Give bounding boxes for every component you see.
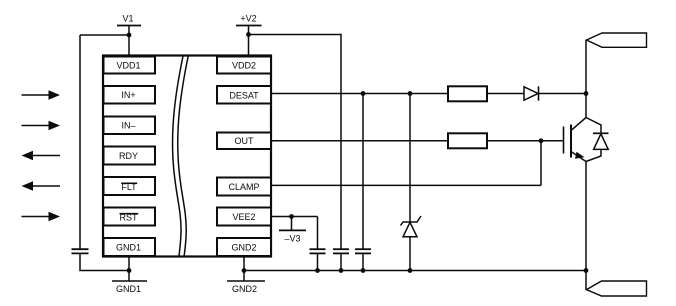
arrow IN+ (input direction)	[22, 90, 61, 99]
wire CLAMP line	[271, 184, 541, 186]
wire GND1 pin down	[128, 257, 130, 282]
svg-text:VEE2: VEE2	[232, 212, 255, 222]
wire +V2 node to bypass cap C2 rail	[249, 35, 342, 250]
pin box RST	[104, 208, 156, 226]
gate bar	[563, 127, 565, 154]
svg-text:DESAT: DESAT	[229, 91, 259, 101]
terminal flag (to load/phase)	[587, 281, 647, 296]
-V3 supply symbol	[279, 217, 306, 244]
wire VEE2 down to cap C3	[317, 217, 319, 250]
wire zener rail from DESAT line	[409, 94, 411, 222]
junction emitter-bus	[584, 268, 589, 273]
pin box RDY	[104, 147, 156, 165]
wire clamp node down	[540, 141, 542, 186]
ground symbol GND1	[112, 281, 147, 294]
wire V1 to VDD1	[128, 26, 130, 56]
pin box IN+	[104, 86, 156, 104]
wire cap C1 to GND1	[80, 253, 129, 270]
isolation barrier curves	[173, 56, 183, 256]
arrow RST (input direction)	[22, 212, 61, 221]
+V2 supply symbol	[236, 14, 262, 26]
wire cap C3 to bus	[317, 253, 319, 270]
capacitor C3 (VEE2 bypass)	[310, 249, 326, 253]
junction collector node	[584, 91, 589, 96]
svg-text:–V3: –V3	[284, 233, 300, 243]
svg-text:GND1: GND1	[116, 284, 141, 294]
collector lead	[571, 94, 586, 131]
pin box IN-	[104, 117, 156, 135]
pin box GND2	[217, 238, 271, 256]
freewheeling diode D2	[586, 118, 609, 162]
emitter arrowhead	[575, 152, 585, 159]
pin box OUT	[217, 133, 271, 150]
svg-text:V1: V1	[122, 14, 133, 24]
ground symbol GND2	[227, 281, 265, 294]
junction zener-bus	[408, 268, 413, 273]
wire V1 node to left bypass cap	[80, 34, 129, 36]
pin labels	[116, 61, 260, 253]
IC body U1 isolated gate driver	[103, 56, 271, 257]
wire emitter down to terminal	[585, 271, 587, 290]
zener diode Z1	[401, 216, 422, 237]
junction V1 node	[127, 33, 132, 38]
wire R2 to gate	[487, 140, 563, 142]
wire R1 to D1	[487, 93, 524, 95]
emitter lead	[571, 152, 586, 271]
junction DESAT zener tap	[408, 91, 413, 96]
svg-text:VDD2: VDD2	[232, 61, 256, 71]
arrow RDY (output direction)	[22, 151, 61, 160]
wire OUT line	[271, 140, 448, 142]
right pin boxes	[217, 57, 271, 257]
junction C3-bus	[315, 268, 320, 273]
junction C4-bus	[361, 268, 366, 273]
overline FLT	[121, 182, 137, 184]
wire DESAT line	[271, 93, 448, 95]
svg-text:RDY: RDY	[119, 151, 138, 161]
junction gate/clamp node	[539, 138, 544, 143]
junction VEE2 / -V3 tap	[289, 214, 294, 219]
svg-text:IN–: IN–	[121, 121, 135, 131]
svg-text:GND1: GND1	[116, 243, 141, 253]
arrow FLT (output direction)	[22, 181, 61, 190]
junction C2-bus	[339, 268, 344, 273]
resistor R1 (DESAT)	[448, 86, 487, 101]
pin box VDD1	[104, 57, 156, 74]
wire GND2 pin down	[243, 257, 245, 282]
junction GND1 node	[127, 268, 132, 273]
diode D1 (DESAT sense)	[524, 86, 539, 100]
wire cap C4 to bus	[362, 253, 364, 270]
arrow IN- (input direction)	[22, 121, 61, 130]
junction GND2 node	[242, 268, 247, 273]
left pin boxes	[104, 57, 156, 257]
svg-text:OUT: OUT	[235, 136, 255, 146]
pin box VDD2	[217, 57, 271, 74]
wire VEE2 line	[271, 216, 318, 218]
wire +V2 to VDD2	[248, 26, 250, 56]
wire cap C2 to GND2 bus	[340, 253, 342, 270]
resistor R2 (gate)	[448, 133, 487, 148]
V1 supply symbol	[117, 14, 141, 26]
wire zener to bus	[409, 237, 411, 271]
pin box FLT	[104, 177, 156, 195]
wire left rail down	[79, 35, 81, 249]
terminal flag (to bus voltage)	[587, 33, 647, 47]
wire DESAT blanking cap rail	[362, 94, 364, 250]
pin box CLAMP	[217, 178, 271, 196]
pin box DESAT	[217, 86, 271, 104]
wire D1 to collector node	[539, 93, 587, 95]
junction DESAT blanking cap tap	[361, 91, 366, 96]
svg-text:+V2: +V2	[240, 14, 256, 24]
transistor Q1 IGBT	[564, 94, 587, 271]
svg-text:GND2: GND2	[232, 284, 257, 294]
capacitor C2 (VDD2 bypass)	[333, 249, 349, 253]
wire GND2 bottom bus	[244, 270, 586, 272]
svg-text:CLAMP: CLAMP	[228, 182, 259, 192]
svg-text:GND2: GND2	[231, 243, 256, 253]
svg-text:IN+: IN+	[121, 90, 135, 100]
overline RST	[120, 213, 139, 215]
junction +V2 node	[246, 32, 251, 37]
pin box GND1	[104, 238, 156, 256]
capacitor C4 (DESAT blanking)	[355, 249, 371, 253]
wire collector up to terminal	[585, 40, 587, 94]
pin box VEE2	[217, 208, 271, 226]
capacitor C1 (VDD1 bypass)	[72, 249, 89, 253]
channel bar	[570, 125, 572, 158]
svg-text:VDD1: VDD1	[116, 61, 140, 71]
